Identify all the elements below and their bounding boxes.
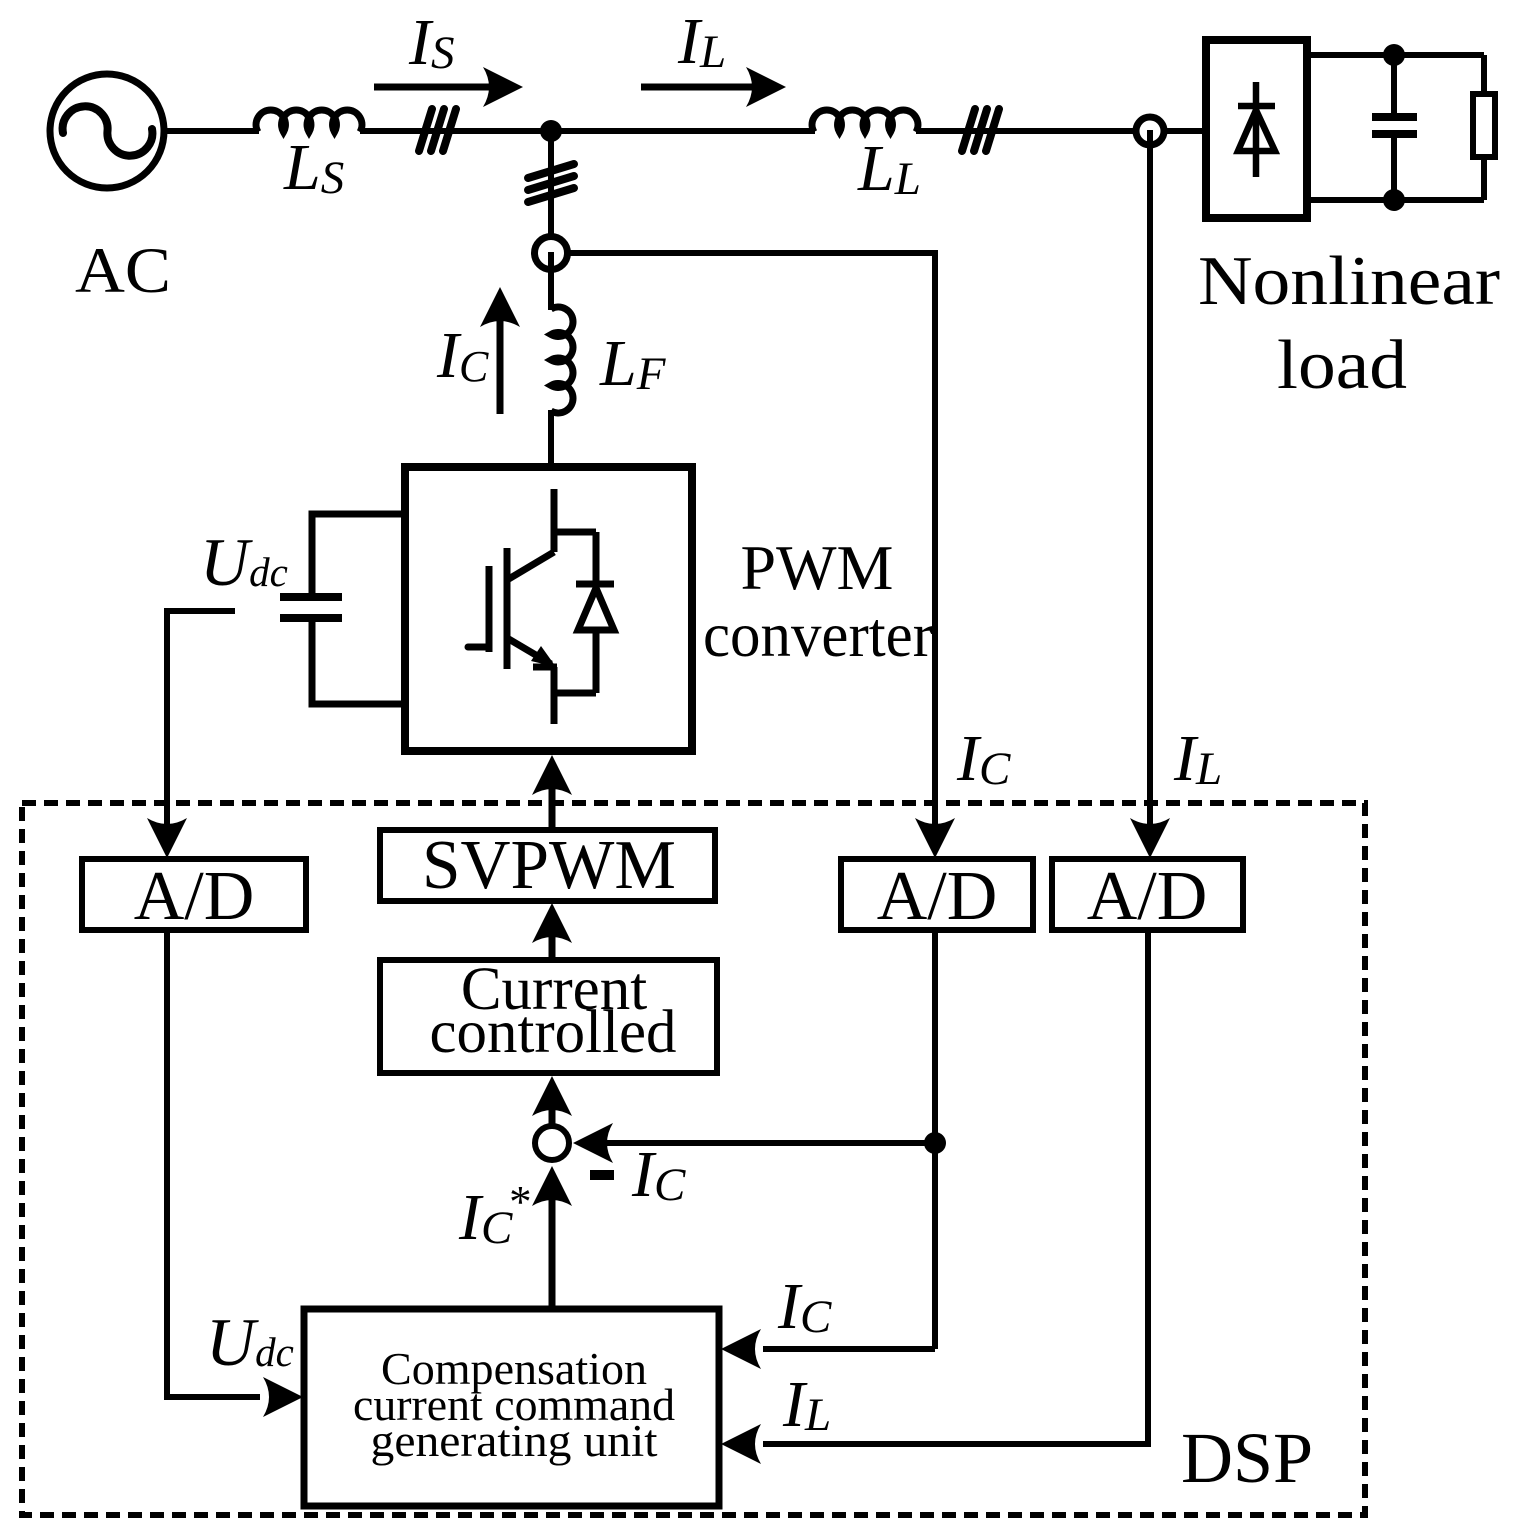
inductor Ls <box>256 110 362 132</box>
wire Il sense <box>1147 130 1153 830</box>
arrow into A/D Ic <box>915 818 955 858</box>
capacitor Udc <box>280 514 405 704</box>
wire A/D1 down to comp <box>167 930 260 1397</box>
wire node to LF <box>548 252 554 310</box>
DSP dashed box <box>22 803 1365 1515</box>
arrow Ic star into node <box>532 1166 572 1309</box>
node junction at PCC <box>540 120 562 142</box>
PWM converter box <box>405 467 692 751</box>
wire collector branch <box>554 529 596 536</box>
diode D2 freewheel <box>576 532 614 693</box>
A/D block 2 <box>841 858 1033 935</box>
resistor load <box>1473 55 1495 200</box>
wire load bottom <box>1311 197 1484 203</box>
arrow into summing node <box>573 1123 613 1163</box>
node dot Ic line <box>924 1132 946 1154</box>
nonlinear load rectifier box <box>1206 40 1307 218</box>
arrow SVPWM to converter <box>532 755 572 830</box>
svg-text:AC: AC <box>75 235 171 307</box>
wire load top <box>1311 52 1484 58</box>
inductor LL <box>812 110 918 132</box>
svg-text:A/D: A/D <box>1087 858 1208 935</box>
wire Udc sense <box>167 611 235 830</box>
CT mark on load line <box>962 109 999 151</box>
svg-text:generating unit: generating unit <box>371 1416 659 1466</box>
svg-text:load: load <box>1277 327 1407 404</box>
arrow Ic into comp <box>721 1329 761 1369</box>
wire junction to LL <box>551 128 815 134</box>
arrow emitter <box>531 646 556 667</box>
wire AC to Ls <box>164 128 259 134</box>
node sensor circle filter <box>535 237 568 270</box>
label minus Ic <box>590 1138 686 1211</box>
CT mark on source line <box>419 109 456 151</box>
svg-text:Nonlinear: Nonlinear <box>1198 243 1500 320</box>
svg-text:SVPWM: SVPWM <box>422 827 676 904</box>
A/D block 1 <box>82 858 306 935</box>
node dot top <box>1383 44 1405 66</box>
svg-text:PWM: PWM <box>741 532 894 603</box>
inductor LF <box>551 307 573 413</box>
arrow into A/D Udc <box>147 818 187 858</box>
CT mark on filter line <box>528 164 574 202</box>
arrow Ic filter <box>480 287 520 414</box>
wire junction down <box>548 131 554 236</box>
diode D1 <box>1238 82 1275 177</box>
node sensor circle load <box>1136 117 1164 145</box>
SVPWM block <box>380 827 715 904</box>
wire node to load <box>1164 128 1203 134</box>
compensation unit block <box>304 1309 719 1506</box>
wire A/D2 down <box>932 930 938 1349</box>
summing node <box>535 1126 569 1160</box>
svg-text:converter: converter <box>703 599 933 670</box>
arrow IL <box>641 67 786 107</box>
arrow Il into comp <box>721 1424 761 1464</box>
wire emitter branch <box>554 690 596 697</box>
svg-text:*: * <box>507 1177 530 1227</box>
transistor Q1 IGBT <box>468 489 557 724</box>
wire Ls to junction <box>360 128 547 134</box>
A/D block 3 <box>1052 858 1243 935</box>
wire A/D3 down <box>763 930 1148 1444</box>
capacitor load <box>1372 55 1417 200</box>
svg-text:A/D: A/D <box>134 858 255 935</box>
current controlled block <box>380 956 717 1073</box>
wire Ic sense horizontal <box>568 253 935 830</box>
svg-text:controlled: controlled <box>430 999 677 1066</box>
node dot bottom <box>1383 189 1405 211</box>
AC source <box>50 74 164 188</box>
arrow Udc into comp <box>263 1377 303 1417</box>
arrow controlled to SVPWM <box>532 903 572 960</box>
svg-text:DSP: DSP <box>1181 1418 1313 1498</box>
arrow into A/D Il <box>1130 818 1170 858</box>
wire LF to converter <box>548 410 554 467</box>
wire LL to load node <box>916 128 1136 134</box>
svg-text:A/D: A/D <box>877 858 998 935</box>
arrow node to controlled <box>532 1076 572 1125</box>
wire Ic feedback to node <box>605 1140 935 1146</box>
wire Ic into comp <box>763 1346 935 1352</box>
arrow Is <box>374 67 523 107</box>
